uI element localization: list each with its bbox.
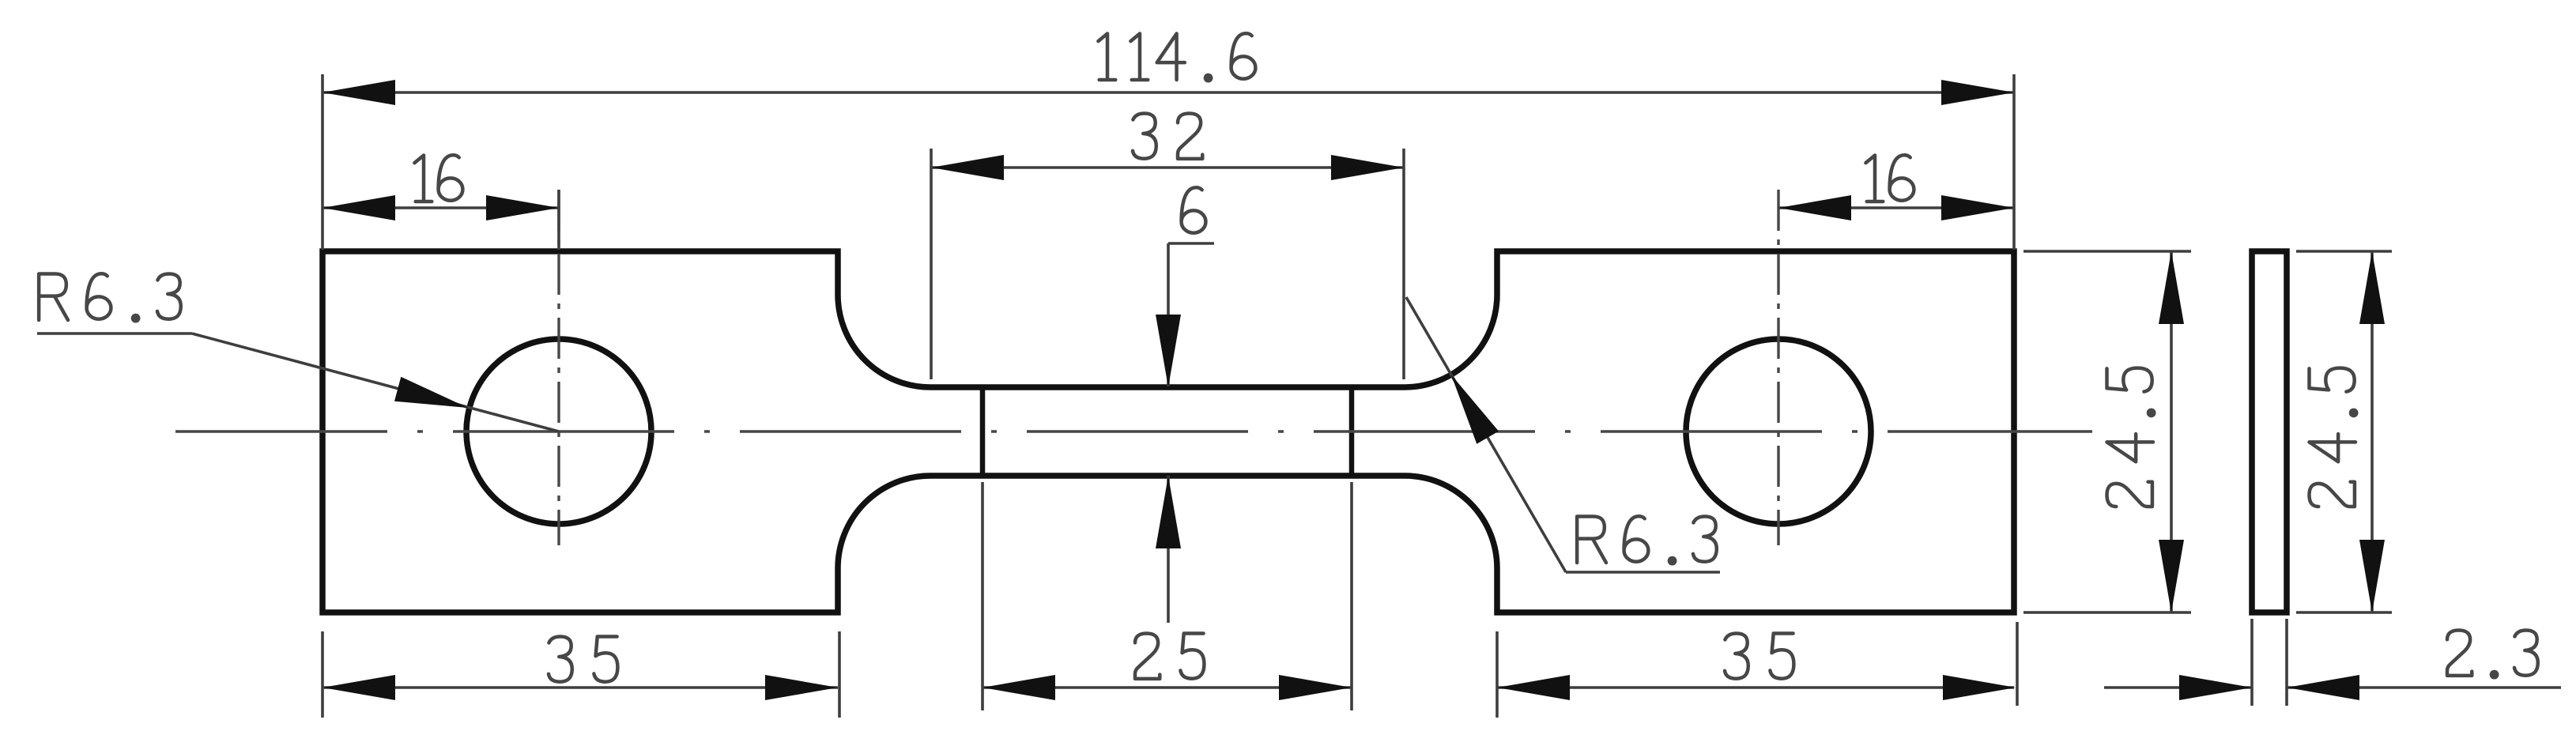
R6.3 left leader <box>37 332 192 335</box>
side view rectangle <box>2252 251 2287 612</box>
text 114.6 <box>1098 33 1115 79</box>
dim 16 left <box>322 206 559 209</box>
text R6.3 right <box>1577 517 1606 563</box>
dim 16 right <box>1778 206 2014 209</box>
dim 25 <box>983 686 1352 689</box>
dim 32 <box>931 166 1404 169</box>
ext lines 32 <box>930 149 933 379</box>
gauge mark right <box>1349 387 1355 476</box>
vertical centerline right hole <box>1777 190 1779 545</box>
dim 35 left <box>322 686 838 689</box>
ext hole center left <box>557 190 560 250</box>
hole left <box>466 339 651 524</box>
vertical centerline left hole <box>557 190 560 545</box>
dim 35 right <box>1497 686 2014 689</box>
text 16 right <box>1865 156 1883 202</box>
specimen outline (front view) <box>322 251 2014 612</box>
hole right <box>1686 339 1871 524</box>
gauge mark left <box>980 387 986 476</box>
text 16 left <box>414 156 432 202</box>
horizontal centerline <box>175 430 2092 432</box>
ext line right top <box>2012 74 2016 250</box>
ext line left top <box>321 74 324 250</box>
dim 6 <box>1168 242 1214 245</box>
text R6.3 left <box>39 274 68 320</box>
dim 114.6 <box>322 91 2014 94</box>
text 32 <box>1133 114 1156 159</box>
R6.3 right leader <box>1566 571 1720 574</box>
dim 24.5 side <box>2370 251 2374 612</box>
text 6 <box>1182 187 1206 232</box>
dim 2.3 <box>2250 619 2254 706</box>
dim 24.5 front <box>2170 251 2173 612</box>
